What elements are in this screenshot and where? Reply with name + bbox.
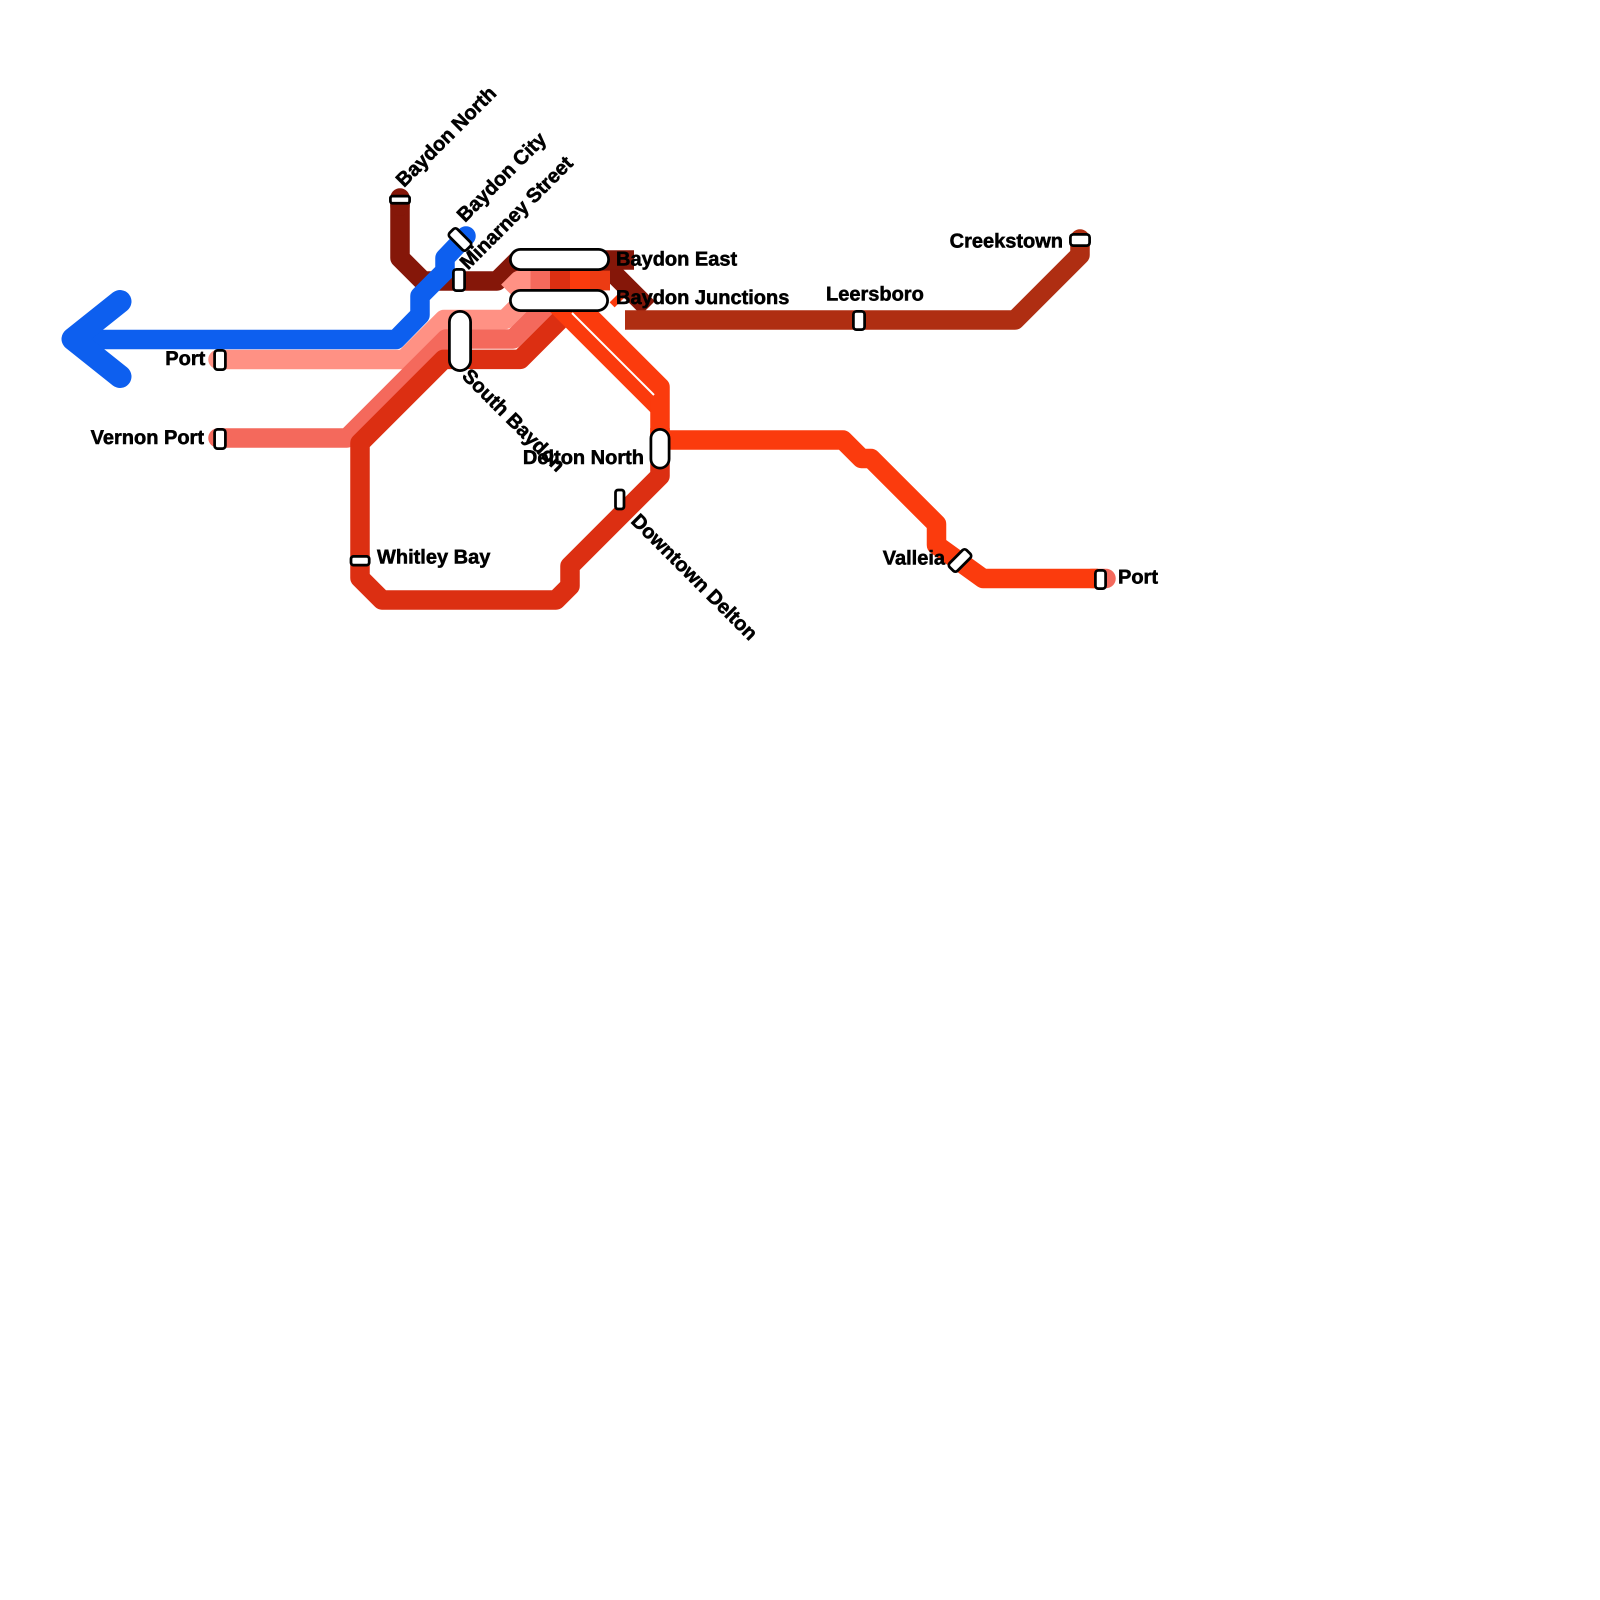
orange line L4 Baydon Junctions-Delton North-Valleia-Port bbox=[563, 290, 1098, 579]
blue line Minarney to west arrow bbox=[90, 236, 466, 340]
stripe C loop red at interchange band bbox=[550, 271, 570, 291]
station South Baydon bbox=[449, 311, 470, 370]
orange line L4 band piece at interchange bbox=[570, 271, 610, 291]
svg-text:Baydon Junctions: Baydon Junctions bbox=[616, 287, 789, 309]
station Creekstown bbox=[1070, 234, 1089, 245]
station Port east bbox=[1095, 570, 1105, 588]
station Leersboro bbox=[853, 311, 864, 329]
station Port west bbox=[215, 350, 226, 369]
station Baydon East bbox=[510, 249, 608, 269]
station Whitley Bay bbox=[351, 556, 369, 565]
station Baydon City bbox=[448, 227, 473, 252]
stripe A light salmon at interchange band bbox=[508, 281, 531, 292]
maroon line cap at Baydon North bbox=[390, 198, 410, 206]
orange nub right of Baydon Junctions pill bbox=[616, 296, 621, 301]
station Minarney Street bbox=[453, 269, 464, 290]
light salmon cap at Port bbox=[218, 350, 222, 370]
maroon line L1 Baydon North to Baydon East bbox=[400, 196, 648, 308]
svg-text:Valleia: Valleia bbox=[883, 548, 946, 570]
station Vernon Port bbox=[215, 429, 226, 448]
svg-text:Whitley Bay: Whitley Bay bbox=[377, 547, 491, 569]
station Baydon Junctions bbox=[510, 290, 607, 310]
salmon nub at right Port bbox=[1092, 569, 1106, 589]
loop red line L3 interchange-South Baydon-Whitley Bay-Downtown Delton-Delton North bbox=[360, 296, 660, 600]
salmon line L5 Vernon Port to interchange bbox=[218, 296, 557, 439]
white seam in orange descent bbox=[572, 313, 654, 395]
svg-text:Baydon East: Baydon East bbox=[616, 249, 737, 271]
brick line cap at Creekstown bbox=[1070, 239, 1090, 245]
blue line cap at Baydon City end bbox=[462, 236, 466, 240]
svg-text:Port: Port bbox=[1118, 567, 1158, 589]
brick line L2 Baydon Junctions to Creekstown bbox=[625, 239, 1080, 320]
svg-text:Vernon Port: Vernon Port bbox=[91, 427, 205, 449]
station Downtown Delton bbox=[616, 490, 625, 509]
station Delton North bbox=[651, 429, 669, 468]
svg-text:Leersboro: Leersboro bbox=[826, 284, 924, 306]
blue arrowhead chevron bbox=[73, 302, 120, 377]
salmon cap at Vernon Port bbox=[218, 428, 222, 448]
svg-text:Delton North: Delton North bbox=[523, 447, 644, 469]
stripe E orange at interchange band bbox=[590, 271, 610, 291]
orange line L4 left strand Baydon Junctions to Delton North bbox=[554, 302, 659, 407]
station Baydon North bbox=[390, 196, 409, 203]
stripe B salmon at interchange band bbox=[531, 271, 551, 291]
svg-text:Port: Port bbox=[165, 348, 205, 370]
svg-text:Creekstown: Creekstown bbox=[950, 231, 1063, 253]
station Valleia bbox=[948, 548, 973, 573]
light salmon line L6 Port to interchange bbox=[218, 293, 532, 360]
maroon stub east of Baydon East bbox=[604, 250, 634, 270]
